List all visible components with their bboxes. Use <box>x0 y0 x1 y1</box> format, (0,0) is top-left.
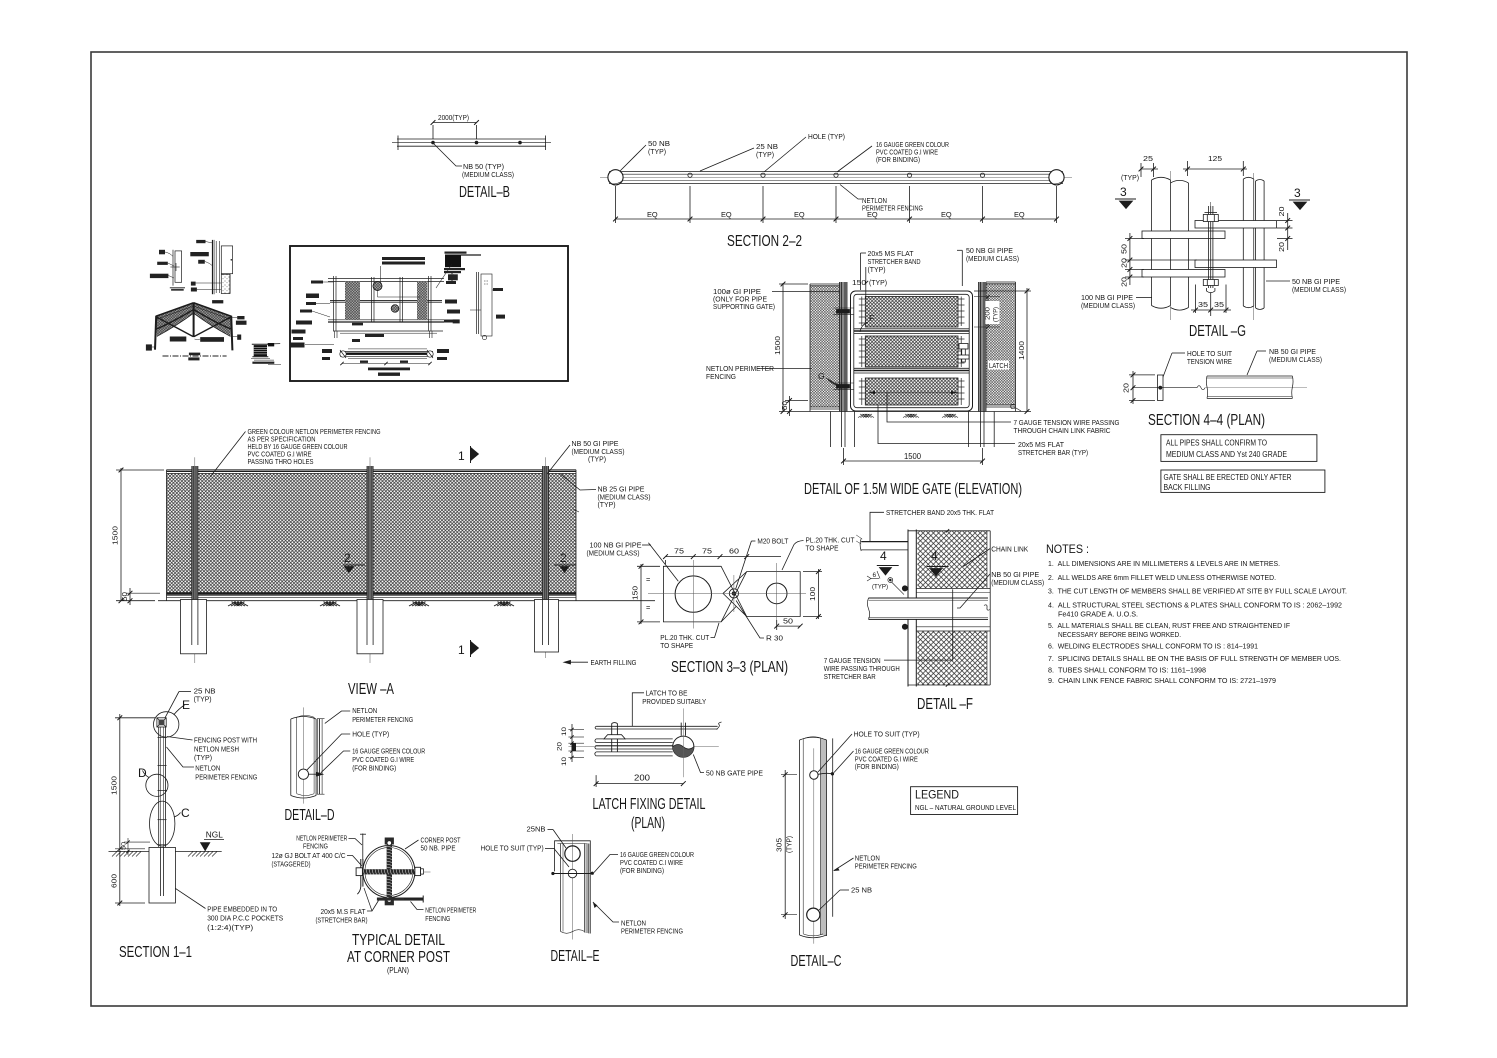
gate frame stub pipe left <box>861 541 908 543</box>
tent top chords <box>156 303 194 316</box>
EQ dimension chain <box>616 218 1057 220</box>
svg-text:1500: 1500 <box>773 336 782 355</box>
hole circles <box>688 173 692 177</box>
label 50 NB GI PIPE <box>1266 280 1290 282</box>
horizontal threaded rod <box>360 869 422 874</box>
mini circled spots <box>373 282 382 291</box>
svg-text:(TYP): (TYP) <box>1121 173 1139 182</box>
stretcher band ticks right column <box>958 297 965 406</box>
ground line <box>808 411 1031 413</box>
svg-text:STRETCHER BAR (TYP): STRETCHER BAR (TYP) <box>1018 448 1088 457</box>
fence side edges <box>166 470 168 601</box>
centre line <box>568 746 718 748</box>
rod left nut <box>356 868 362 876</box>
svg-text:=: = <box>646 603 650 612</box>
dim 150 left <box>640 564 642 624</box>
left plate PL.20 <box>663 566 749 622</box>
100 NB pipe circle <box>675 576 711 612</box>
gate mesh row 1 <box>865 297 958 328</box>
fence line right <box>832 738 834 916</box>
svg-text:FENCING: FENCING <box>425 914 450 923</box>
svg-text:LATCH: LATCH <box>989 361 1008 370</box>
sheet border frame <box>91 52 1407 1006</box>
svg-text:DETAIL –G: DETAIL –G <box>1189 323 1246 340</box>
right plate PL.20 <box>723 572 800 617</box>
chain link upper panel <box>917 531 987 589</box>
svg-text:HOLE TO SUIT (TYP): HOLE TO SUIT (TYP) <box>854 730 920 739</box>
mini gate rails <box>328 278 444 280</box>
ground line <box>158 600 655 602</box>
svg-text:20: 20 <box>557 741 564 751</box>
svg-text:NETLON MESH: NETLON MESH <box>194 744 239 753</box>
gate pipe stub top <box>680 723 682 736</box>
svg-text:DETAIL–C: DETAIL–C <box>791 953 842 970</box>
dim 2000(TYP) <box>433 122 477 124</box>
tent posts <box>155 316 156 350</box>
mini below-ground post stubs <box>334 331 336 338</box>
svg-text:150: 150 <box>852 278 866 287</box>
dim 200 <box>595 775 597 787</box>
svg-text:TENSION WIRE: TENSION WIRE <box>1187 357 1232 366</box>
svg-text:NETLON: NETLON <box>352 706 377 715</box>
svg-text:FENCING POST WITH: FENCING POST WITH <box>194 736 257 745</box>
pipe rail plan lines <box>397 138 546 140</box>
D bubble <box>146 774 168 796</box>
flat bar <box>1158 375 1164 401</box>
svg-text:(MEDIUM CLASS): (MEDIUM CLASS) <box>991 578 1044 587</box>
svg-text:(FOR BINDING): (FOR BINDING) <box>876 155 920 164</box>
box frame <box>290 246 568 381</box>
rod top nut <box>385 838 394 845</box>
svg-text:300 DIA P.C.C POCKETS: 300 DIA P.C.C POCKETS <box>207 914 283 923</box>
svg-text:FENCING: FENCING <box>303 842 328 851</box>
svg-text:10: 10 <box>561 756 568 766</box>
svg-text:STRETCHER BAR: STRETCHER BAR <box>824 672 876 681</box>
svg-text:EQ: EQ <box>1014 210 1025 219</box>
gate mesh row 3 <box>865 378 958 405</box>
svg-text:1: 1 <box>458 643 465 657</box>
gate mesh row 2 <box>865 336 958 367</box>
svg-text:20: 20 <box>1120 258 1129 268</box>
svg-text:20: 20 <box>1277 242 1286 252</box>
centre line <box>572 834 574 940</box>
left fence mesh panel <box>810 286 840 408</box>
svg-text:PROVIDED SUITABLY: PROVIDED SUITABLY <box>642 697 706 706</box>
tent fence elevation: hatched panels <box>156 303 194 337</box>
svg-text:25: 25 <box>1143 154 1153 163</box>
svg-text:PERIMETER FENCING: PERIMETER FENCING <box>855 861 917 870</box>
stretcher band ticks left column <box>859 297 866 406</box>
wire line with arrow <box>309 773 323 775</box>
svg-text:75: 75 <box>674 547 684 556</box>
svg-text:EQ: EQ <box>721 210 732 219</box>
svg-text:SECTION 1–1: SECTION 1–1 <box>119 944 192 961</box>
fence line top left <box>362 834 364 861</box>
right fence mesh panel <box>986 284 1016 406</box>
fence lines right <box>316 719 318 795</box>
tent base dash line <box>163 355 227 357</box>
svg-text:=: = <box>646 575 650 584</box>
svg-text:LEGEND: LEGEND <box>915 788 959 802</box>
svg-text:LATCH FIXING DETAIL: LATCH FIXING DETAIL <box>593 796 706 813</box>
svg-text:50: 50 <box>1120 244 1129 254</box>
gate mid rail 2 <box>854 367 969 369</box>
svg-text:CHAIN LINK: CHAIN LINK <box>991 545 1028 554</box>
svg-text:200: 200 <box>985 306 992 320</box>
svg-text:4: 4 <box>880 549 887 563</box>
dim 20 <box>1132 371 1134 404</box>
mini detail a: post strip <box>172 250 174 286</box>
svg-text:100: 100 <box>808 587 817 601</box>
gate mid rail 1 <box>854 328 969 330</box>
svg-text:(PLAN): (PLAN) <box>387 965 409 975</box>
svg-text:3: 3 <box>1294 186 1301 200</box>
mesh edge break tick <box>573 509 579 512</box>
right gate post 100dia <box>979 282 987 412</box>
svg-text:(TYP): (TYP) <box>993 307 1000 322</box>
post 3 pocket <box>535 600 559 653</box>
svg-text:(TYP): (TYP) <box>598 500 616 509</box>
fence bottom band <box>167 592 577 594</box>
right dim chain 20/20 <box>1287 213 1289 250</box>
fence mesh body <box>167 474 577 594</box>
chain link lower panel <box>917 631 987 685</box>
svg-text:M20 BOLT: M20 BOLT <box>757 537 788 546</box>
mini gate top label smudges <box>382 257 425 260</box>
latch plate <box>604 735 625 739</box>
svg-text:(MEDIUM CLASS): (MEDIUM CLASS) <box>587 548 640 557</box>
pipe end ticks <box>397 136 399 151</box>
vertical threaded rod <box>387 845 392 899</box>
svg-text:(MEDIUM CLASS): (MEDIUM CLASS) <box>1081 301 1135 310</box>
post 1 <box>192 466 198 645</box>
label 16 gauge wire <box>837 146 872 172</box>
bolt stud <box>1208 206 1210 288</box>
dims 75 75 60 <box>666 556 782 558</box>
stretcher bar vertical <box>907 530 909 687</box>
wire through hole <box>553 873 593 875</box>
svg-text:10: 10 <box>561 726 568 736</box>
wire spool figure <box>251 343 281 365</box>
left gate post 100dia <box>840 282 848 412</box>
svg-text:50: 50 <box>121 841 128 850</box>
mini hatch columns <box>345 282 360 321</box>
hole bottom 25 NB <box>807 908 820 921</box>
hinge top <box>837 310 850 314</box>
centre lines <box>648 592 806 594</box>
svg-text:5. ALL MATERIALS SHALL BE CLE: 5. ALL MATERIALS SHALL BE CLEAN, RUST FR… <box>1048 621 1290 630</box>
hole top <box>810 771 818 779</box>
post outer bracket <box>555 841 591 872</box>
post cap <box>157 718 166 727</box>
earth hatch clusters <box>228 602 514 606</box>
post 2 <box>367 466 373 645</box>
svg-text:FENCING: FENCING <box>706 372 736 381</box>
svg-text:F: F <box>869 313 874 323</box>
ground line <box>109 850 222 852</box>
hinge bottom <box>837 385 850 389</box>
small hole circle <box>568 869 577 878</box>
tent labels right <box>237 316 244 319</box>
100 NB pipe cylinder pair <box>1151 180 1153 306</box>
pipe axis <box>1170 171 1172 320</box>
post dots <box>432 141 435 144</box>
svg-text:TO SHAPE: TO SHAPE <box>806 544 839 553</box>
dim 50 <box>776 620 778 630</box>
mini right section strip <box>476 272 478 334</box>
svg-text:EARTH FILLING: EARTH FILLING <box>591 658 637 667</box>
dark datum block <box>572 743 577 751</box>
svg-text:(TYP): (TYP) <box>756 150 774 159</box>
svg-text:20: 20 <box>1120 277 1129 287</box>
svg-text:75: 75 <box>702 547 712 556</box>
centre line with break <box>1132 387 1197 389</box>
svg-text:DETAIL OF 1.5M WIDE GATE (ELEV: DETAIL OF 1.5M WIDE GATE (ELEVATION) <box>804 481 1022 498</box>
mini gate posts <box>333 276 335 331</box>
post 1 pocket <box>181 600 207 654</box>
svg-text:(TYP): (TYP) <box>194 753 212 762</box>
post 3 <box>543 466 549 645</box>
svg-text:DETAIL–D: DETAIL–D <box>285 807 335 824</box>
svg-text:GATE SHALL BE ERECTED ONLY AFT: GATE SHALL BE ERECTED ONLY AFTER <box>1164 472 1292 482</box>
svg-text:NGL – NATURAL GROUND LEVEL: NGL – NATURAL GROUND LEVEL <box>915 803 1016 812</box>
tension wire arrow row3 <box>869 392 957 394</box>
dim 50 left bottom <box>789 396 791 416</box>
dims <box>119 714 121 906</box>
centre line <box>813 748 815 943</box>
M20 bolt circle <box>729 589 738 598</box>
svg-text:(MEDIUM CLASS): (MEDIUM CLASS) <box>1292 285 1346 294</box>
svg-text:1500: 1500 <box>110 776 119 795</box>
svg-text:PIPE EMBEDDED IN TO: PIPE EMBEDDED IN TO <box>207 905 277 914</box>
dim 1500 bottom <box>844 460 983 462</box>
big hole circle 25NB <box>565 846 580 861</box>
svg-text:1500: 1500 <box>111 526 120 545</box>
leader 7 gauge tension wire <box>887 393 1011 423</box>
svg-text:(FOR BINDING): (FOR BINDING) <box>352 764 396 773</box>
leader 20x5 MS flat stretcher bar <box>878 405 1015 444</box>
svg-text:35: 35 <box>1198 300 1208 309</box>
small hole circle right plate <box>766 583 787 604</box>
svg-text:50: 50 <box>120 592 129 601</box>
end post circle left 50NB <box>608 170 623 185</box>
svg-text:SECTION 4–4 (PLAN): SECTION 4–4 (PLAN) <box>1148 412 1265 429</box>
svg-text:20: 20 <box>1277 207 1286 217</box>
wire with dot <box>818 772 831 775</box>
vertical centre line <box>682 708 684 777</box>
dim 200 (TYP) right <box>987 297 989 328</box>
svg-text:D: D <box>138 766 147 780</box>
flat bar upper right <box>1195 221 1277 229</box>
svg-text:(1:2:4)(TYP): (1:2:4)(TYP) <box>207 923 253 932</box>
left post below ground + pocket <box>830 412 832 448</box>
dim 50 left <box>129 588 131 605</box>
svg-text:DETAIL–B: DETAIL–B <box>459 184 510 201</box>
svg-text:ALL PIPES SHALL CONFIRM TO: ALL PIPES SHALL CONFIRM TO <box>1166 438 1267 448</box>
label 25 NB (TYP) <box>700 148 754 171</box>
big pipe crossing <box>869 598 989 619</box>
svg-text:150: 150 <box>631 586 640 600</box>
rail above pipe <box>916 587 990 589</box>
svg-text:STRETCHER BAND 20x5 THK. FLAT: STRETCHER BAND 20x5 THK. FLAT <box>886 508 994 517</box>
svg-text:4. ALL STRUCTURAL STEEL SECTI: 4. ALL STRUCTURAL STEEL SECTIONS & PLATE… <box>1048 601 1342 610</box>
dim 1400 right <box>1026 288 1028 412</box>
svg-text:TO SHAPE: TO SHAPE <box>660 641 693 650</box>
svg-text:50: 50 <box>780 401 789 410</box>
svg-text:(TYP): (TYP) <box>785 836 794 853</box>
svg-text:PERIMETER FENCING: PERIMETER FENCING <box>352 715 413 724</box>
mini b labels <box>196 240 205 243</box>
centre line <box>303 707 305 803</box>
svg-text:2000(TYP): 2000(TYP) <box>438 113 469 122</box>
dim 100 right <box>817 569 819 619</box>
svg-text:EQ: EQ <box>794 210 805 219</box>
mini ground lines <box>333 330 443 332</box>
left dim chain 50/20/20 <box>1129 233 1131 285</box>
svg-text:DETAIL –F: DETAIL –F <box>917 696 973 713</box>
X cut connection <box>721 566 749 593</box>
svg-text:3. THE CUT LENGTH OF MEMBERS: 3. THE CUT LENGTH OF MEMBERS SHALL BE VE… <box>1048 587 1347 596</box>
rod right nut <box>415 867 421 875</box>
bottom flat bar (fence) <box>377 898 423 901</box>
svg-text:(FOR BINDING): (FOR BINDING) <box>855 762 899 771</box>
left flat bar <box>360 859 362 887</box>
mini plan dim line <box>342 363 430 365</box>
svg-text:PASSING THRO HOLES: PASSING THRO HOLES <box>248 457 314 466</box>
svg-text:(PLAN): (PLAN) <box>631 815 665 832</box>
svg-text:NOTES :: NOTES : <box>1046 542 1089 556</box>
dim 1500 left <box>782 283 784 412</box>
foundation pocket <box>149 847 175 903</box>
svg-text:(MEDIUM CLASS): (MEDIUM CLASS) <box>1269 355 1322 364</box>
svg-text:BACK FILLING: BACK FILLING <box>1164 482 1211 492</box>
end post circle right <box>1049 170 1064 185</box>
svg-text:1: 1 <box>458 449 465 463</box>
svg-text:(MEDIUM CLASS): (MEDIUM CLASS) <box>462 170 514 179</box>
svg-text:C: C <box>181 806 190 820</box>
svg-text:VIEW –A: VIEW –A <box>348 681 394 698</box>
flat bar lower right <box>1195 260 1277 268</box>
gate pipe circle half dark <box>673 736 694 757</box>
svg-text:125: 125 <box>1208 154 1222 163</box>
corner post circle <box>363 846 415 898</box>
svg-text:SECTION 2–2: SECTION 2–2 <box>727 233 802 250</box>
fence top band <box>167 469 577 471</box>
rod bottom nut <box>385 898 394 905</box>
earth hatch ticks <box>858 414 958 418</box>
gate frame outer <box>851 291 973 411</box>
weld dots <box>902 586 907 591</box>
svg-text:20: 20 <box>1122 383 1131 393</box>
top bar <box>596 726 718 729</box>
flat bar lower left <box>1142 270 1225 278</box>
latch assembly <box>959 344 968 350</box>
svg-text:4: 4 <box>931 549 938 563</box>
svg-text:50: 50 <box>783 617 793 626</box>
svg-text:(MEDIUM CLASS): (MEDIUM CLASS) <box>966 254 1019 263</box>
dim 125 <box>1183 168 1247 170</box>
svg-text:(TYP): (TYP) <box>588 455 606 464</box>
svg-text:2: 2 <box>344 551 351 565</box>
latch pin <box>611 724 613 752</box>
svg-text:35: 35 <box>1214 300 1224 309</box>
svg-text:9. CHAIN LINK FENCE FABRIC SH: 9. CHAIN LINK FENCE FABRIC SHALL CONFORM… <box>1048 676 1276 685</box>
svg-text:200: 200 <box>634 773 650 783</box>
pipe body <box>799 740 801 935</box>
svg-text:MEDIUM CLASS AND Yst 240 GRADE: MEDIUM CLASS AND Yst 240 GRADE <box>1166 449 1287 459</box>
post verticals <box>560 844 562 932</box>
post 2 pocket <box>357 600 383 654</box>
svg-text:NECESSARY BEFORE BEING WORKED.: NECESSARY BEFORE BEING WORKED. <box>1058 630 1181 639</box>
svg-text:NETLON: NETLON <box>195 764 220 773</box>
svg-text:TYPICAL DETAIL: TYPICAL DETAIL <box>352 932 445 949</box>
tent diagonals <box>157 317 194 337</box>
svg-text:NGL: NGL <box>206 830 223 840</box>
svg-text:SECTION 3–3 (PLAN): SECTION 3–3 (PLAN) <box>671 659 788 676</box>
gate frame inner <box>854 294 969 407</box>
panel right edges <box>986 531 988 589</box>
svg-text:305: 305 <box>775 838 784 852</box>
svg-text:R 30: R 30 <box>766 634 783 643</box>
flat bar upper left <box>1142 231 1225 239</box>
leader to NB 50 label <box>433 143 462 166</box>
svg-text:60: 60 <box>729 547 739 556</box>
svg-text:6: 6 <box>873 572 877 579</box>
label LATCH <box>988 361 1009 370</box>
svg-text:THROUGH CHAIN LINK FABRIC: THROUGH CHAIN LINK FABRIC <box>1014 426 1112 435</box>
svg-text:(FOR BINDING): (FOR BINDING) <box>620 866 664 875</box>
svg-text:AT CORNER POST: AT CORNER POST <box>347 949 450 966</box>
label 50 NB (TYP) <box>620 145 646 171</box>
label HOLE (TYP) <box>764 137 806 172</box>
right post below ground + pocket <box>967 412 969 448</box>
label 100 NB GI PIPE leader <box>648 543 678 581</box>
tent labels bottom <box>170 337 187 342</box>
svg-text:EQ: EQ <box>647 210 658 219</box>
note box 2 <box>1161 470 1325 492</box>
svg-text:HOLE (TYP): HOLE (TYP) <box>352 730 389 739</box>
svg-text:(TYP): (TYP) <box>194 694 212 703</box>
svg-text:25 NB: 25 NB <box>851 886 872 895</box>
svg-text:PERIMETER FENCING: PERIMETER FENCING <box>195 773 257 782</box>
svg-text:3: 3 <box>1120 185 1127 199</box>
dim 35 35 <box>1195 285 1197 314</box>
dim 305 (TYP) <box>784 770 786 919</box>
tent label left <box>146 344 152 350</box>
svg-text:HOLE TO SUIT (TYP): HOLE TO SUIT (TYP) <box>481 844 544 853</box>
svg-text:1. ALL DIMENSIONS ARE IN MILL: 1. ALL DIMENSIONS ARE IN MILLIMETERS & L… <box>1048 559 1280 568</box>
svg-text:G: G <box>1010 402 1016 411</box>
svg-text:1500: 1500 <box>904 451 921 461</box>
svg-text:E: E <box>182 698 190 712</box>
svg-text:Fe410 GRADE A. U.O.S.: Fe410 GRADE A. U.O.S. <box>1058 610 1138 619</box>
tension wire leader <box>884 589 953 660</box>
svg-text:2. ALL WELDS ARE 6mm FILLET W: 2. ALL WELDS ARE 6mm FILLET WELD UNLESS … <box>1048 573 1276 582</box>
svg-text:EQ: EQ <box>941 210 952 219</box>
svg-text:(TYP): (TYP) <box>868 265 886 274</box>
mini plan title smudges <box>368 368 410 371</box>
C bubble <box>150 801 175 846</box>
bolt head top <box>1203 215 1218 222</box>
pipe body <box>1207 375 1292 377</box>
svg-text:DETAIL–E: DETAIL–E <box>551 948 600 965</box>
pipe body <box>290 719 292 796</box>
svg-text:HOLE (TYP): HOLE (TYP) <box>808 132 845 141</box>
mini a labels <box>159 250 165 255</box>
tent sag chords <box>156 310 193 330</box>
note box 1 <box>1161 435 1317 462</box>
tent title smudge <box>189 353 200 356</box>
